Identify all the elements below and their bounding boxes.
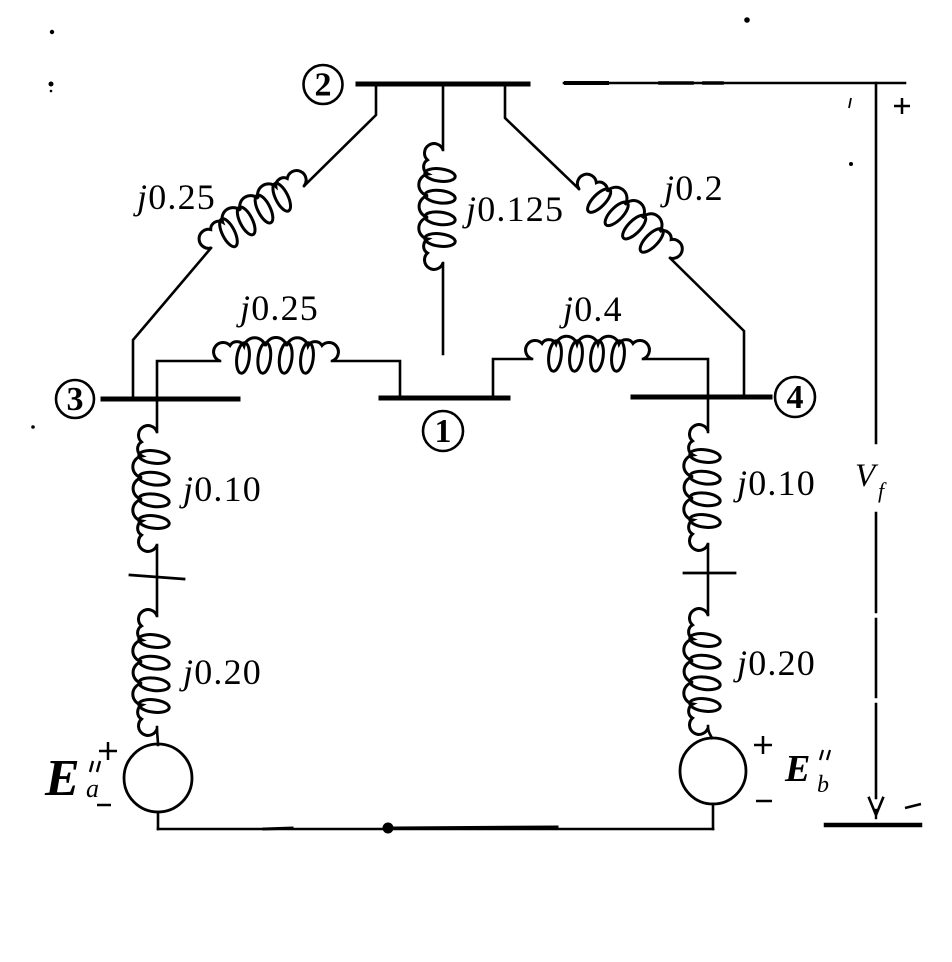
plus generator B	[754, 744, 772, 747]
inductor j0.25 diagonal (line 2-3)	[193, 163, 317, 263]
node 3 circled label	[56, 380, 94, 418]
wire j0.10L to transformer tick	[156, 545, 159, 616]
speckle left colon	[49, 82, 54, 87]
bus 1 bar	[381, 396, 508, 401]
wire bus3 to coil j0.25h left lead	[157, 361, 220, 399]
generator A circle	[124, 744, 192, 812]
plus generator A	[99, 750, 117, 753]
svg-text:j0.25: j0.25	[133, 177, 216, 217]
Vf arrowhead	[869, 798, 883, 815]
wire coil j0.2 to bus4	[670, 258, 744, 397]
svg-text:j0.20: j0.20	[733, 643, 816, 683]
inductor j0.125 (line 2-1)	[419, 144, 456, 270]
Vf line lower segment	[875, 513, 878, 612]
node 2 circled label	[304, 65, 343, 104]
svg-text:3: 3	[67, 381, 84, 418]
node 4 circled label	[775, 377, 815, 417]
minus generator B	[756, 800, 772, 803]
generator B circle	[680, 738, 746, 804]
svg-text:j0.10: j0.10	[179, 469, 262, 509]
bus 2 bar	[358, 82, 528, 87]
node 1 circled label	[423, 411, 463, 451]
wire generator A to bottom bus	[157, 812, 160, 829]
svg-text:j0.4: j0.4	[559, 289, 623, 329]
inductor j0.2 diagonal (line 2-4)	[566, 164, 691, 272]
inductor j0.20 left	[133, 610, 170, 736]
svg-text:j0.25: j0.25	[236, 288, 319, 328]
inductor j0.10 left	[133, 426, 170, 552]
speckle left of bus3	[31, 425, 35, 429]
wire generator B to bottom bus	[712, 804, 715, 829]
svg-text:1: 1	[435, 413, 452, 450]
svg-text:a: a	[86, 774, 99, 803]
wire bus1 to coil j0.4 left lead	[493, 359, 532, 397]
wire bus2 middle drop	[442, 86, 445, 150]
bus 4 bar	[633, 395, 770, 400]
speckle near Vf line	[849, 162, 853, 166]
inductor j0.10 right	[684, 425, 721, 551]
junction node dot on bottom wire	[383, 823, 394, 834]
wire coil j0.4 right lead to bus4 drop	[643, 359, 708, 432]
wire coil j0.25 diag to bus3	[133, 248, 211, 399]
wire bus2 right drop	[505, 86, 579, 189]
wire j0.10R to transformer tick right	[707, 544, 710, 615]
inductor j0.4 horizontal (line 1-4)	[526, 336, 650, 372]
Vf line upper segment	[875, 83, 878, 443]
plus at Vf top	[894, 105, 910, 108]
minus at Vf bottom	[905, 804, 921, 808]
wire coil j0.25h right lead to bus1	[332, 361, 400, 398]
inductor j0.25 horizontal (line 3-1)	[214, 338, 339, 374]
speckle top left	[50, 30, 54, 34]
svg-text:E: E	[784, 748, 810, 790]
svg-text:2: 2	[315, 67, 332, 104]
svg-text:E: E	[44, 750, 80, 807]
transformer tick right	[684, 572, 735, 575]
wire j0.20L to generator A	[157, 727, 158, 745]
wire bus2 left drop	[304, 86, 376, 186]
ground reference bar bottom right	[826, 823, 920, 828]
speckle top right	[744, 17, 750, 23]
wire j0.20R to generator B	[708, 726, 712, 738]
wire bus2 to Vf top	[564, 82, 905, 85]
svg-text:j0.20: j0.20	[179, 652, 262, 692]
inductor j0.20 right	[684, 609, 721, 735]
minus generator A	[97, 804, 111, 807]
svg-text:j0.2: j0.2	[660, 168, 724, 208]
wire bus3 down to j0.10L	[156, 399, 159, 432]
bus 3 bar	[103, 397, 238, 402]
bottom wire between generators	[158, 828, 713, 831]
svg-text:j0.125: j0.125	[462, 189, 564, 229]
wire j0.125 to node 1 (gap)	[442, 263, 445, 354]
svg-text:j0.10: j0.10	[733, 463, 816, 503]
tick near Vf top	[849, 98, 851, 108]
transformer tick left	[130, 575, 184, 579]
svg-text:4: 4	[787, 379, 804, 416]
svg-text:b: b	[817, 772, 829, 798]
